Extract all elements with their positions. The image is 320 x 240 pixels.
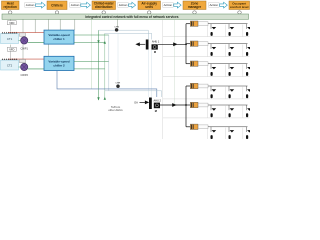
- occupant row 3.2: [229, 72, 231, 76]
- block arrow 1: [36, 2, 46, 8]
- AHU2 outdoor air arrow: [140, 101, 150, 105]
- CHR pipe chiller2 to riser: [74, 68, 105, 70]
- return riser down arrow: [104, 97, 106, 100]
- control drop to pump P1: [117, 19, 119, 27]
- pipe tower1 to pump1: [19, 39, 21, 41]
- branch duct row 2: [208, 43, 248, 45]
- occupant row 2.3: [246, 52, 248, 56]
- block arrow 4: [174, 2, 181, 8]
- cooling tower 2 fan hatch: [2, 58, 18, 60]
- diffuser drop row 5.2: [228, 105, 230, 110]
- box Zone manager: [183, 1, 206, 10]
- svg-text:chiller 1: chiller 1: [53, 37, 65, 41]
- diffuser cone row 2.1: [212, 47, 217, 49]
- svg-text:Action: Action: [71, 3, 80, 7]
- diffuser drop row 5.1: [210, 105, 212, 110]
- svg-text:M: M: [155, 109, 157, 113]
- AHU1 supply duct: [158, 43, 186, 45]
- diffuser cone row 6.3: [247, 130, 252, 132]
- zone wall row 4.1: [206, 87, 208, 99]
- occupant row 4.2: [229, 94, 231, 98]
- zone wall row 4.3: [242, 87, 244, 99]
- control drop to CWP1 VFD: [22, 19, 24, 33]
- connector circle under Zone manager: [193, 11, 197, 14]
- AHU2 supply duct: [160, 104, 186, 106]
- svg-text:Action: Action: [164, 3, 173, 7]
- VFD box CWP1: [20, 33, 26, 36]
- zone floor line row 3: [163, 76, 250, 78]
- block arrow 5: [220, 2, 228, 8]
- zone wall row 1.1: [206, 25, 208, 37]
- diffuser drop row 4.3: [246, 86, 248, 91]
- diffuser cone row 2.3: [247, 47, 252, 49]
- diffuser cone row 4.3: [247, 89, 252, 91]
- supply trunk 1: [185, 24, 187, 64]
- wire VFD2 to tower fan: [10, 51, 12, 58]
- connector circle under Occupant comfort level: [238, 11, 242, 14]
- zone wall row 2.1: [206, 45, 208, 57]
- zone wall row 6.2: [224, 128, 226, 139]
- trunk 2 elbows: [186, 85, 190, 87]
- diffuser drop row 4.1: [210, 86, 212, 91]
- pipe chiller2 to AHU2 blue elbow: [57, 71, 157, 98]
- AHU1 filter bar: [146, 40, 149, 50]
- AHU2 filter bar: [149, 98, 152, 110]
- branch duct row 1: [208, 23, 248, 25]
- diffuser cone row 5.1: [212, 108, 217, 110]
- diffuser drop row 6.1: [210, 127, 212, 132]
- pipe tower2 to pump2: [19, 66, 21, 68]
- occupant row 3.1: [211, 72, 213, 76]
- diffuser drop row 6.2: [228, 127, 230, 132]
- diffuser drop row 2.1: [210, 44, 212, 49]
- diffuser cone row 4.1: [212, 89, 217, 91]
- supply riser up arrow: [97, 40, 99, 43]
- branch duct row 6: [208, 126, 248, 128]
- diffuser drop row 3.3: [246, 64, 248, 69]
- zone wall row 2.3: [242, 45, 244, 57]
- svg-text:rejection: rejection: [4, 5, 17, 9]
- diffuser cone row 5.2: [230, 108, 235, 110]
- connector circle under Air-supply units: [147, 11, 151, 14]
- diffuser drop row 5.3: [246, 105, 248, 110]
- pump P2 drop: [117, 33, 119, 85]
- occupant row 5.3: [246, 113, 248, 117]
- trunk2 junction: [185, 104, 187, 106]
- chiller 2 box: [44, 56, 74, 70]
- zone wall row 6.1: [206, 128, 208, 139]
- diffuser drop row 1.3: [246, 24, 248, 29]
- label Action 5: [209, 3, 220, 8]
- occupant row 5.1: [211, 113, 213, 117]
- VAV box row 4: [190, 83, 208, 88]
- zone floor line row 2: [163, 56, 250, 58]
- pipe loop AHU1 return: [105, 33, 152, 39]
- svg-text:distribution: distribution: [95, 5, 113, 9]
- AHU1 duct arrow: [173, 42, 177, 46]
- svg-text:VFD: VFD: [9, 21, 14, 25]
- diffuser drop row 6.3: [246, 127, 248, 132]
- svg-text:units: units: [145, 5, 153, 9]
- connector circle under Chillers: [55, 11, 59, 14]
- diffuser cone row 5.3: [247, 108, 252, 110]
- label Action 4: [163, 3, 174, 8]
- chilled water supply riser: [98, 30, 100, 100]
- svg-text:CWP1: CWP1: [20, 47, 28, 51]
- cooling tower CT2: [1, 60, 19, 70]
- zone floor line row 4: [163, 98, 250, 100]
- cooling tower 1 fan hatch: [2, 32, 18, 34]
- VAV box row 5: [190, 102, 208, 107]
- pipe AHU1 coil risers down: [147, 50, 149, 98]
- control drop to chiller 1 top b: [59, 19, 61, 30]
- CHS pipe chiller1 to riser: [74, 34, 109, 36]
- VAV box row 1: [190, 21, 208, 26]
- control drop to CT2 VFD: [10, 45, 12, 48]
- branch duct row 5: [208, 104, 248, 106]
- condenser supply pipe CT1 to chiller1: [8, 32, 44, 34]
- diffuser drop row 3.1: [210, 64, 212, 69]
- svg-text:Action: Action: [119, 3, 128, 7]
- control drop to CWP2 VFD: [22, 44, 24, 59]
- control drop to CT1 VFD: [10, 19, 12, 21]
- label To from other AHUs: [108, 105, 123, 112]
- connector circle under Chilled-water distribution: [102, 11, 106, 14]
- zone wall row 3.2: [224, 65, 226, 77]
- occupant row 2.2: [229, 52, 231, 56]
- occupant row 1.3: [246, 32, 248, 36]
- diffuser cone row 3.1: [212, 67, 217, 69]
- chiller 1 box: [44, 30, 74, 44]
- condenser return pipe pump1 to chiller1: [28, 41, 44, 43]
- svg-text:AHU 2: AHU 2: [154, 100, 162, 103]
- svg-text:VFD: VFD: [9, 48, 14, 52]
- VAV box row 3: [190, 61, 208, 66]
- diffuser drop row 4.2: [228, 86, 230, 91]
- control drop to chiller 1 top: [48, 19, 50, 30]
- control riser green left: [91, 19, 93, 89]
- zone floor line row 5: [163, 117, 250, 119]
- diffuser cone row 4.2: [230, 89, 235, 91]
- zone wall row 5.3: [242, 106, 244, 118]
- pipe loop AHU1 supply: [99, 30, 149, 39]
- zone wall row 1.2: [224, 25, 226, 37]
- svg-text:Integrated control network wit: Integrated control network with full men…: [85, 15, 178, 19]
- label Action 3: [118, 3, 129, 8]
- box Heat rejection: [2, 1, 20, 10]
- faint wall line right zone: [162, 19, 164, 139]
- svg-text:other AHUs: other AHUs: [108, 108, 123, 112]
- VFD box CWP2: [20, 59, 26, 62]
- pump P2: [116, 85, 119, 88]
- block arrow 3: [129, 2, 136, 8]
- occupant row 6.2: [229, 135, 231, 139]
- diffuser cone row 3.2: [230, 67, 235, 69]
- occupant row 5.2: [229, 113, 231, 117]
- AHU1 fan box: [152, 44, 158, 49]
- VAV box row 2: [190, 41, 208, 46]
- occupant row 6.3: [246, 135, 248, 139]
- occupant row 4.3: [246, 94, 248, 98]
- diffuser cone row 1.2: [230, 27, 235, 29]
- VFD box CT2: [7, 47, 16, 51]
- control drop sensor on condenser pipe: [34, 19, 36, 32]
- diffuser cone row 2.2: [230, 47, 235, 49]
- diffuser drop row 1.1: [210, 24, 212, 29]
- pump P1: [115, 28, 118, 31]
- svg-text:AHU 1: AHU 1: [152, 41, 160, 44]
- svg-text:comfort level: comfort level: [230, 5, 249, 9]
- pump CWP2: [21, 63, 28, 70]
- zone wall row 2.2: [224, 45, 226, 57]
- occupant row 1.2: [229, 32, 231, 36]
- branch duct row 3: [208, 63, 248, 65]
- VFD box CT1: [7, 21, 16, 25]
- svg-text:Action: Action: [26, 3, 35, 7]
- pipe AHU2 second line: [105, 91, 162, 97]
- diffuser cone row 3.3: [247, 67, 252, 69]
- zone wall row 5.2: [224, 106, 226, 118]
- occupant row 6.1: [211, 135, 213, 139]
- occupant row 2.1: [211, 52, 213, 56]
- svg-text:CT2: CT2: [7, 64, 13, 68]
- branch duct row 4: [208, 85, 248, 87]
- box Chilled-water distribution: [92, 1, 116, 10]
- diffuser cone row 6.1: [212, 130, 217, 132]
- diffuser cone row 1.1: [212, 27, 217, 29]
- trunk 1 elbows: [186, 23, 190, 25]
- AHU2 fan box: [154, 103, 160, 109]
- zone wall row 1.3: [242, 25, 244, 37]
- condenser supply pipe CT2 to chiller2: [8, 58, 44, 60]
- diffuser drop row 3.2: [228, 64, 230, 69]
- occupant row 4.1: [211, 94, 213, 98]
- svg-text:Chillers: Chillers: [51, 3, 63, 7]
- zone wall row 3.3: [242, 65, 244, 77]
- diffuser drop row 2.2: [228, 44, 230, 49]
- occupant row 1.1: [211, 32, 213, 36]
- network band: [2, 14, 249, 19]
- label Action 2: [70, 3, 81, 8]
- box Air-supply units: [138, 1, 161, 10]
- diffuser cone row 6.2: [230, 130, 235, 132]
- CHR pipe chiller1 to riser: [74, 41, 105, 43]
- VAV box row 6: [190, 124, 208, 129]
- CHS pipe chiller2 to riser: [74, 61, 109, 63]
- chilled water return riser: [104, 33, 106, 100]
- svg-text:chiller 2: chiller 2: [53, 63, 65, 67]
- control drop right of chiller: [74, 19, 76, 30]
- occupant row 3.3: [246, 72, 248, 76]
- zone floor line row 1: [163, 36, 250, 38]
- supply riser down arrow: [97, 97, 99, 100]
- svg-text:M: M: [154, 50, 156, 54]
- control link chiller1 to chiller2: [48, 44, 50, 56]
- zone wall row 4.2: [224, 87, 226, 99]
- secondary pipe vertical: [108, 35, 110, 91]
- zone wall row 5.1: [206, 106, 208, 118]
- wire VFD1 to tower fan: [10, 25, 12, 32]
- diffuser cone row 1.3: [247, 27, 252, 29]
- box Chillers: [47, 1, 67, 10]
- svg-text:CHR: CHR: [115, 82, 120, 84]
- AHU2 duct arrow: [172, 103, 176, 107]
- connector circle under Heat rejection: [8, 11, 12, 14]
- zone wall row 6.3: [242, 128, 244, 139]
- svg-text:manager: manager: [188, 5, 202, 9]
- block arrow 2: [81, 2, 91, 8]
- diffuser drop row 2.3: [246, 44, 248, 49]
- return riser arrow: [104, 41, 106, 44]
- svg-text:CT1: CT1: [7, 37, 13, 41]
- diffuser drop row 1.2: [228, 24, 230, 29]
- pump CWP1: [21, 37, 28, 44]
- box Occupant comfort level: [229, 1, 250, 10]
- trunk1 junction: [185, 43, 187, 45]
- svg-text:Action: Action: [209, 3, 218, 7]
- svg-text:CWP2: CWP2: [20, 73, 28, 77]
- zone wall row 3.1: [206, 65, 208, 77]
- control drop to VAV trunk: [174, 19, 176, 105]
- supply trunk 2: [185, 86, 187, 127]
- cooling tower CT1: [1, 34, 19, 44]
- svg-text:OA: OA: [134, 101, 138, 105]
- label Action 1: [25, 3, 36, 8]
- condenser return pipe pump2 to chiller2: [28, 68, 44, 70]
- AHU1 return air arrow: [135, 42, 145, 46]
